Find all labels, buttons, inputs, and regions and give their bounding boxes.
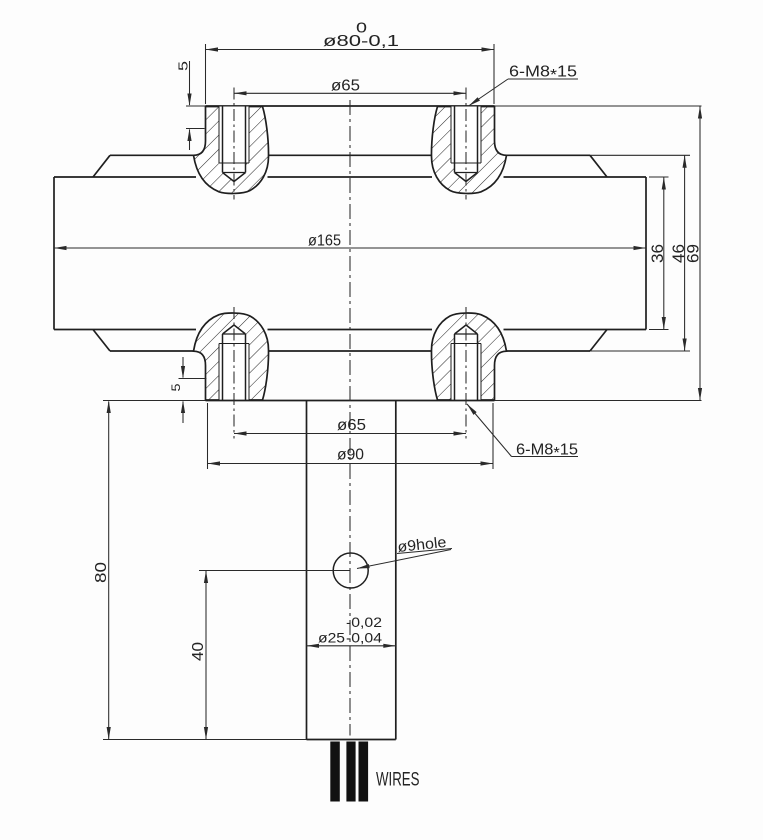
boss bottom-right (hatched section) bbox=[431, 313, 506, 400]
dimension 5 top bbox=[176, 61, 205, 150]
svg-text:WIRES: WIRES bbox=[376, 770, 420, 791]
dimension Ø80-0.1 top bbox=[206, 20, 495, 105]
boss top-left (hatched section) bbox=[194, 107, 269, 194]
label 6-M8*15 top with leader bbox=[467, 64, 578, 108]
svg-text:0: 0 bbox=[356, 20, 367, 37]
wire 2 bbox=[346, 742, 355, 802]
disc top edge bbox=[54, 176, 669, 178]
bolt hole axis left bottom bbox=[233, 307, 235, 439]
wire 1 bbox=[330, 742, 340, 802]
disc left edge bbox=[53, 177, 55, 330]
svg-text:69: 69 bbox=[683, 244, 702, 263]
dimension Ø25 tolerance bbox=[307, 614, 396, 648]
svg-text:ø90: ø90 bbox=[337, 447, 364, 464]
svg-text:ø165: ø165 bbox=[308, 233, 341, 250]
bolt hole axis left top bbox=[233, 88, 235, 200]
tapped hole M8 bottom-left bbox=[219, 325, 249, 400]
svg-text:-0,04: -0,04 bbox=[346, 630, 382, 646]
boss bottom-left (hatched section) bbox=[194, 313, 269, 400]
dimension 69 right bbox=[683, 106, 702, 401]
shaft left edge bbox=[306, 401, 308, 740]
shaft right edge bbox=[395, 401, 397, 740]
dimension 80 left bbox=[93, 401, 111, 740]
wire 3 bbox=[359, 742, 369, 802]
svg-text:ø65: ø65 bbox=[331, 78, 360, 95]
svg-text:40: 40 bbox=[190, 642, 207, 661]
disc right edge bbox=[645, 177, 647, 330]
label Ø9hole with leader bbox=[357, 534, 452, 571]
tapped hole M8 top-right bbox=[451, 107, 481, 182]
dimension Ø65 bottom bbox=[234, 417, 466, 436]
svg-text:80: 80 bbox=[93, 562, 110, 583]
svg-text:5: 5 bbox=[169, 383, 183, 391]
lower chamfer right bbox=[590, 330, 607, 352]
center line (vertical axis) bbox=[349, 100, 351, 736]
shaft bottom edge bbox=[103, 739, 396, 741]
upper chamfer right bbox=[590, 155, 607, 177]
upper chamfer left bbox=[93, 155, 110, 177]
dimension 5 bottom bbox=[169, 357, 207, 423]
dimension 46 right bbox=[669, 155, 688, 351]
tapped hole M8 bottom-right bbox=[451, 325, 481, 400]
dimension 36 right bbox=[648, 177, 667, 330]
bolt hole axis right top bbox=[465, 88, 467, 200]
svg-text:5: 5 bbox=[176, 61, 191, 71]
dimension 40 bbox=[190, 571, 350, 740]
hole Ø9 bbox=[333, 553, 368, 588]
bottom mounting surface line bbox=[103, 400, 702, 402]
boss top-right (hatched section) bbox=[431, 107, 506, 194]
dimension Ø90 bottom bbox=[208, 403, 494, 469]
label 6-M8*15 bottom with leader bbox=[465, 403, 578, 462]
dimension Ø165 bbox=[54, 233, 646, 251]
dimension Ø65 top bbox=[234, 78, 466, 96]
disc bottom edge bbox=[54, 329, 669, 331]
bolt hole axis right bottom bbox=[465, 307, 467, 439]
top surface line bbox=[186, 105, 702, 107]
svg-text:ø65: ø65 bbox=[337, 417, 366, 434]
svg-text:-0,02: -0,02 bbox=[346, 614, 382, 630]
lower step surface bbox=[110, 350, 690, 352]
svg-text:ø25: ø25 bbox=[318, 630, 345, 646]
upper step surface bbox=[110, 154, 690, 156]
tapped hole M8 top-left bbox=[219, 107, 249, 182]
lower chamfer left bbox=[93, 330, 110, 352]
svg-text:36: 36 bbox=[648, 244, 667, 263]
